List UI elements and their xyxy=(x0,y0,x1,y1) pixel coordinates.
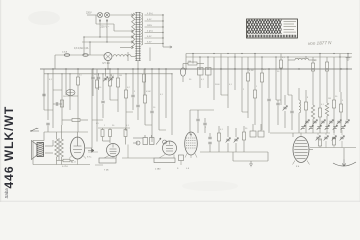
wire to ground xyxy=(343,148,345,159)
tap arrow 4 xyxy=(131,41,133,43)
trimmer C31b xyxy=(333,125,338,130)
svg-text:6,3V: 6,3V xyxy=(147,42,152,44)
svg-text:446 WLK/WT: 446 WLK/WT xyxy=(2,106,16,189)
wire R9 top xyxy=(144,69,146,95)
junction bus2 xyxy=(98,73,99,74)
speaker wire drop xyxy=(52,140,54,146)
wire R18 top xyxy=(280,54,282,61)
transformer Tr1 primary winding xyxy=(132,13,135,48)
trimmer C27b xyxy=(301,125,306,130)
loudspeaker LS magnet (hatched) xyxy=(37,143,44,157)
wire C9 down xyxy=(137,108,139,121)
trimmer C21 xyxy=(283,106,288,111)
Tr2 core line xyxy=(58,138,60,160)
stub wire xyxy=(95,164,103,166)
wire x347 xyxy=(346,57,348,88)
secondary wire 4 xyxy=(145,32,164,34)
wire C4 top xyxy=(110,74,112,77)
wire R10 down xyxy=(102,137,104,142)
junction bus xyxy=(312,68,313,69)
secondary bus vertical xyxy=(162,15,164,47)
wire primary bottom drop xyxy=(127,52,129,61)
wire mid row xyxy=(44,131,88,133)
junction bus xyxy=(65,68,66,69)
wire L4 down xyxy=(298,113,300,133)
wire R20 top xyxy=(326,57,328,62)
capacitor C0 xyxy=(42,94,45,96)
bottom bus left xyxy=(33,164,90,166)
wire R24 down xyxy=(340,112,342,133)
connector h xyxy=(159,129,166,131)
wire 230V row xyxy=(96,23,114,25)
wire trimmer down2 xyxy=(341,141,343,148)
junction bus xyxy=(117,68,118,69)
power transformer Tr1 core xyxy=(135,12,140,61)
wire C15 bottom xyxy=(204,126,206,134)
junction bus xyxy=(151,68,152,69)
wire x288 xyxy=(287,57,289,95)
wire R1 top xyxy=(77,69,79,77)
wire R9 bottom xyxy=(144,103,146,125)
wire x159 xyxy=(158,69,160,130)
svg-text:von 1877 N: von 1877 N xyxy=(308,40,332,46)
secondary wire 3 xyxy=(145,26,164,28)
wire x166 xyxy=(165,69,167,118)
capacitor C17 xyxy=(208,142,211,144)
junction bus xyxy=(92,68,93,69)
resistor R11 xyxy=(109,130,112,137)
wire IF2 down xyxy=(207,75,209,88)
secondary wire 2 xyxy=(145,20,164,22)
tap arrow 2 xyxy=(131,30,133,32)
capacitor C5 xyxy=(56,102,58,105)
wire to transformer tap 4 xyxy=(82,41,132,43)
loudspeaker LS cone xyxy=(32,141,38,160)
junction top bus2 xyxy=(339,56,340,57)
contact arrow under La2 xyxy=(106,19,108,22)
wire x228 xyxy=(227,57,229,108)
resistor R6 xyxy=(108,78,111,86)
junction bus xyxy=(326,68,327,69)
ground symbol top right xyxy=(346,54,351,61)
wire C20 xyxy=(277,100,279,103)
junction bus xyxy=(105,68,106,69)
wire R5 top xyxy=(96,69,98,80)
resistor R16 xyxy=(217,133,220,141)
wire C1 top xyxy=(92,69,94,77)
wire R14 top xyxy=(254,54,256,91)
capacitor C15 xyxy=(203,123,206,125)
wire R8 top xyxy=(125,74,127,90)
wire diode xyxy=(88,151,98,153)
junction top bus xyxy=(333,53,334,54)
fuse Si1 xyxy=(64,54,69,57)
main HT bus xyxy=(40,68,352,70)
svg-text:6,3V: 6,3V xyxy=(147,19,152,21)
wire L6 down xyxy=(326,116,328,133)
svg-text:285V: 285V xyxy=(147,25,153,27)
wire C8 top xyxy=(132,69,134,95)
top bus right 2 xyxy=(186,56,352,58)
wire mains L to selector xyxy=(87,14,97,16)
capacitor C13 xyxy=(267,99,270,101)
resistor R10 xyxy=(101,130,104,137)
tap arrow 3 xyxy=(131,36,133,38)
capacitor C14 xyxy=(196,119,199,121)
stub R27 top xyxy=(143,69,145,74)
Tr2 wire down a xyxy=(56,157,58,165)
junction xyxy=(107,68,108,69)
wire into ECH3 xyxy=(189,110,191,135)
wire x44 xyxy=(43,69,45,110)
wire C14 top xyxy=(197,110,199,119)
mains wire to rectifier xyxy=(55,54,104,56)
wire selector to transformer tap 1 xyxy=(110,14,132,16)
wire C12 down xyxy=(182,76,184,82)
connector i xyxy=(221,94,228,96)
wire R6 bottom xyxy=(109,86,111,100)
connector g xyxy=(145,124,152,126)
wire R13 bottom xyxy=(247,81,249,118)
junction bus xyxy=(261,68,262,69)
resistor R22 xyxy=(318,108,321,117)
trimmer C3 xyxy=(103,77,108,82)
tap arrow 1 xyxy=(131,14,133,16)
junction top bus xyxy=(213,53,214,54)
svg-text:0,3 A: 0,3 A xyxy=(62,51,68,54)
wire x92 xyxy=(91,69,93,148)
wire C21 down xyxy=(284,111,286,128)
wire row3 xyxy=(103,140,111,142)
wire C10 top xyxy=(151,69,153,111)
wire row centre xyxy=(190,109,214,111)
svg-text:0,3M: 0,3M xyxy=(249,70,254,72)
wire C21 top xyxy=(284,95,286,105)
wire R15 top xyxy=(261,57,263,73)
wire x214 xyxy=(213,57,215,100)
wire C13 top xyxy=(268,69,270,99)
svg-text:1M: 1M xyxy=(188,61,191,63)
wire L6 top xyxy=(326,96,328,103)
junction bus xyxy=(185,68,186,69)
wire R23 top xyxy=(333,85,335,100)
wire into AZ1 xyxy=(292,133,294,137)
resistor R3 xyxy=(72,119,80,122)
wire x235 xyxy=(234,54,236,91)
wire R19 bottom xyxy=(312,71,314,100)
svg-text:UY 1N: UY 1N xyxy=(103,62,110,65)
wire under cluster xyxy=(122,157,154,159)
output tube AL4 (oval) xyxy=(70,137,84,159)
choke winding xyxy=(113,55,131,57)
capacitor C9 xyxy=(136,105,139,107)
junction bus xyxy=(137,68,138,69)
wire x242 xyxy=(241,57,243,112)
resistor R7 xyxy=(116,78,119,87)
stub xyxy=(317,133,319,135)
Rg down wire xyxy=(180,161,182,166)
wire L3 left xyxy=(288,59,295,61)
transformer centre tap drop xyxy=(137,61,139,69)
wire R13 top xyxy=(247,57,249,73)
junction bus xyxy=(77,68,78,69)
wire IF2 up xyxy=(207,57,209,68)
wire R6 top xyxy=(109,69,111,78)
coil can L2 xyxy=(258,131,264,137)
wire x62 xyxy=(61,74,63,125)
trimmer C25 xyxy=(332,136,337,141)
capacitor C16 xyxy=(208,137,211,139)
junction top bus xyxy=(241,53,242,54)
resistor Rg box xyxy=(179,155,184,161)
wire R17 top xyxy=(243,126,245,132)
wire x221 xyxy=(220,54,222,96)
fuse lamp La2 xyxy=(104,12,109,17)
junction bus xyxy=(132,68,133,69)
top bus right 1 xyxy=(186,53,352,55)
wire C22 down xyxy=(291,114,293,131)
wire L3 right xyxy=(309,59,316,61)
svg-text:AL 4: AL 4 xyxy=(71,161,76,164)
tube EBC3 base xyxy=(99,158,116,163)
resistor R26 xyxy=(332,138,335,145)
junction bus xyxy=(268,68,269,69)
link R11 xyxy=(109,128,111,130)
wire R4 right xyxy=(70,160,74,162)
wire R17 down xyxy=(243,140,245,152)
left edge drop xyxy=(32,141,34,165)
secondary wire 6 xyxy=(145,43,164,45)
junction bus xyxy=(220,68,221,69)
junction top bus xyxy=(227,53,228,54)
wire row above tubes xyxy=(98,127,130,129)
rectifier tube AZ1 (oval, hatched) xyxy=(293,137,309,163)
wire R24 top xyxy=(340,92,342,104)
junction top bus xyxy=(192,53,193,54)
resistor R4 xyxy=(63,159,70,162)
Tr2 wire up b xyxy=(61,125,63,139)
wire C3 top xyxy=(105,69,107,77)
wire jog xyxy=(43,132,45,141)
fuse lamp La1 xyxy=(97,12,102,17)
coil can L1 xyxy=(250,131,256,137)
junction bus xyxy=(144,68,145,69)
capacitor C20 xyxy=(276,103,279,105)
resistor R27 xyxy=(142,74,145,82)
wire C5 right xyxy=(59,103,63,105)
mixer tube ECH3 (tall oval, gridded) xyxy=(185,132,198,155)
wire L2 up xyxy=(260,124,262,131)
wire C2 bottom xyxy=(98,80,100,91)
wire R12 right xyxy=(197,63,204,65)
svg-text:6,3V: 6,3V xyxy=(147,36,152,38)
wire IF1 up xyxy=(199,57,201,68)
wire x276 xyxy=(275,57,277,100)
tap arrow 5 xyxy=(131,46,133,48)
wire selector drop xyxy=(95,15,97,24)
mains drop left xyxy=(54,55,56,69)
wire x66 xyxy=(65,69,67,95)
svg-text:4 [2x]: 4 [2x] xyxy=(147,31,153,33)
junction top bus2 xyxy=(234,56,235,57)
junction bus xyxy=(298,68,299,69)
resistor R11a xyxy=(124,130,127,137)
wire C2 top xyxy=(98,74,100,77)
secondary wire 1 xyxy=(145,14,164,16)
wire C14 bottom xyxy=(197,122,199,134)
wire R16 top xyxy=(218,126,220,133)
wire to speaker top xyxy=(33,140,44,142)
junction bus2 xyxy=(125,73,126,74)
junction top bus2 xyxy=(199,56,200,57)
svg-text:230 V ~: 230 V ~ xyxy=(101,25,110,28)
junction bus2 xyxy=(102,73,103,74)
connector j xyxy=(242,111,248,113)
stub R25b xyxy=(319,146,321,148)
wire row right bottom xyxy=(270,132,330,134)
trimmer C23 xyxy=(316,136,321,141)
wire to transformer tap 2 xyxy=(114,30,132,32)
connector l xyxy=(288,94,292,96)
trimmer C28b xyxy=(309,125,314,130)
stub R25 xyxy=(319,139,321,141)
wire C18 down xyxy=(227,143,229,152)
wire to transformer tap 5 xyxy=(120,47,132,49)
connector e xyxy=(110,99,118,101)
connector f xyxy=(126,111,133,113)
trimmer C27 xyxy=(305,120,310,125)
resistor R15 xyxy=(260,73,263,82)
wire x53 xyxy=(52,69,54,128)
wire C20 down xyxy=(277,106,279,126)
stub xyxy=(325,133,327,135)
wire R12 left xyxy=(183,63,188,65)
detector diode arrow xyxy=(88,149,94,153)
wire C7 down xyxy=(102,104,104,118)
wire transformer bottom drop xyxy=(149,48,151,62)
wire x334 xyxy=(333,57,335,85)
trimmer C29 xyxy=(321,120,326,125)
speaker wire top xyxy=(45,145,53,147)
resistor R13 xyxy=(246,73,249,81)
junction bus xyxy=(109,68,110,69)
trimmer C32b xyxy=(341,125,346,130)
trimmer C32 xyxy=(345,120,350,125)
selector drop La2 xyxy=(106,22,108,42)
Tr2 wire up a xyxy=(56,132,58,139)
wire C8 bottom xyxy=(132,98,134,111)
wire L5 down xyxy=(312,119,314,133)
wire R23 down xyxy=(333,108,335,133)
ground symbol bottom right xyxy=(333,162,356,166)
wire R22 down xyxy=(319,117,321,133)
IF transformer cluster between tubes xyxy=(133,135,167,145)
capacitor C8 xyxy=(131,95,134,97)
connector k xyxy=(276,99,281,101)
wire C12 top xyxy=(182,64,184,68)
trimmer C24 xyxy=(324,136,329,141)
resistor R19 xyxy=(311,63,314,71)
junction top bus xyxy=(347,53,348,54)
wire R20 bottom xyxy=(326,71,328,96)
contact arrow under La1 xyxy=(99,19,101,22)
wire bottom row 2 xyxy=(233,160,268,162)
link R11a xyxy=(125,128,127,130)
wire R3 left xyxy=(62,119,72,121)
capacitor C6 xyxy=(46,123,49,125)
junction top bus2 xyxy=(287,56,288,57)
junction top bus2 xyxy=(207,56,208,57)
stub R26 xyxy=(333,145,335,148)
junction bus xyxy=(199,68,200,69)
wire drop x90 xyxy=(89,42,91,55)
tube EBC3 envelope xyxy=(107,144,120,157)
resistor R23 xyxy=(332,100,335,108)
wire x70 xyxy=(69,74,71,110)
junction bus xyxy=(52,68,53,69)
coil L6 xyxy=(325,103,328,116)
selector drop La1 xyxy=(99,22,101,37)
IF can box xyxy=(198,68,204,76)
svg-text:1M: 1M xyxy=(328,98,331,100)
resistor R24 xyxy=(339,104,342,112)
resistor R8 xyxy=(124,90,127,98)
svg-text:220V: 220V xyxy=(86,11,92,14)
junction bus xyxy=(247,68,248,69)
coil L5 xyxy=(311,105,314,119)
wire R8 bottom xyxy=(125,98,127,131)
wire R22 top xyxy=(319,90,321,108)
output transformer Tr2 secondary xyxy=(60,139,64,157)
junction bus xyxy=(280,68,281,69)
wire C19 top xyxy=(235,128,237,137)
wire x172 xyxy=(171,74,173,135)
wire x340 xyxy=(339,54,341,93)
trimmer C30 xyxy=(329,120,334,125)
resistor R18 xyxy=(279,60,282,68)
junction top bus xyxy=(254,53,255,54)
secondary out arrow xyxy=(170,46,172,48)
junction bus2 xyxy=(61,73,62,74)
wire IF1 down xyxy=(199,75,201,88)
wire R11a down xyxy=(125,137,127,145)
connector a xyxy=(53,89,62,91)
wire C15 top xyxy=(204,118,206,123)
wire C6 down xyxy=(47,126,49,133)
junction top bus2 xyxy=(261,56,262,57)
trimmer C28 xyxy=(313,120,318,125)
trimmer C4 xyxy=(109,77,114,82)
connector c xyxy=(44,109,53,111)
wire C16 top xyxy=(209,133,211,137)
ground symbol centre xyxy=(249,161,253,167)
secondary out wire xyxy=(163,46,170,48)
stub R27 bottom xyxy=(143,82,145,95)
junction bus2 xyxy=(171,73,172,74)
wire R19 top xyxy=(312,57,314,63)
wire R7 top xyxy=(117,69,119,78)
UY cathode drop xyxy=(107,61,109,70)
dealer stamp box xyxy=(240,18,298,38)
fuse Si2 xyxy=(83,54,88,57)
wire R14 bottom xyxy=(254,98,256,125)
wire x320 xyxy=(319,54,321,91)
resistor R20 xyxy=(325,62,328,71)
svg-text:4 [2x]: 4 [2x] xyxy=(147,13,153,15)
junction bus xyxy=(165,68,166,69)
secondary wire 5 xyxy=(145,37,164,39)
wire R16 down xyxy=(218,141,220,152)
